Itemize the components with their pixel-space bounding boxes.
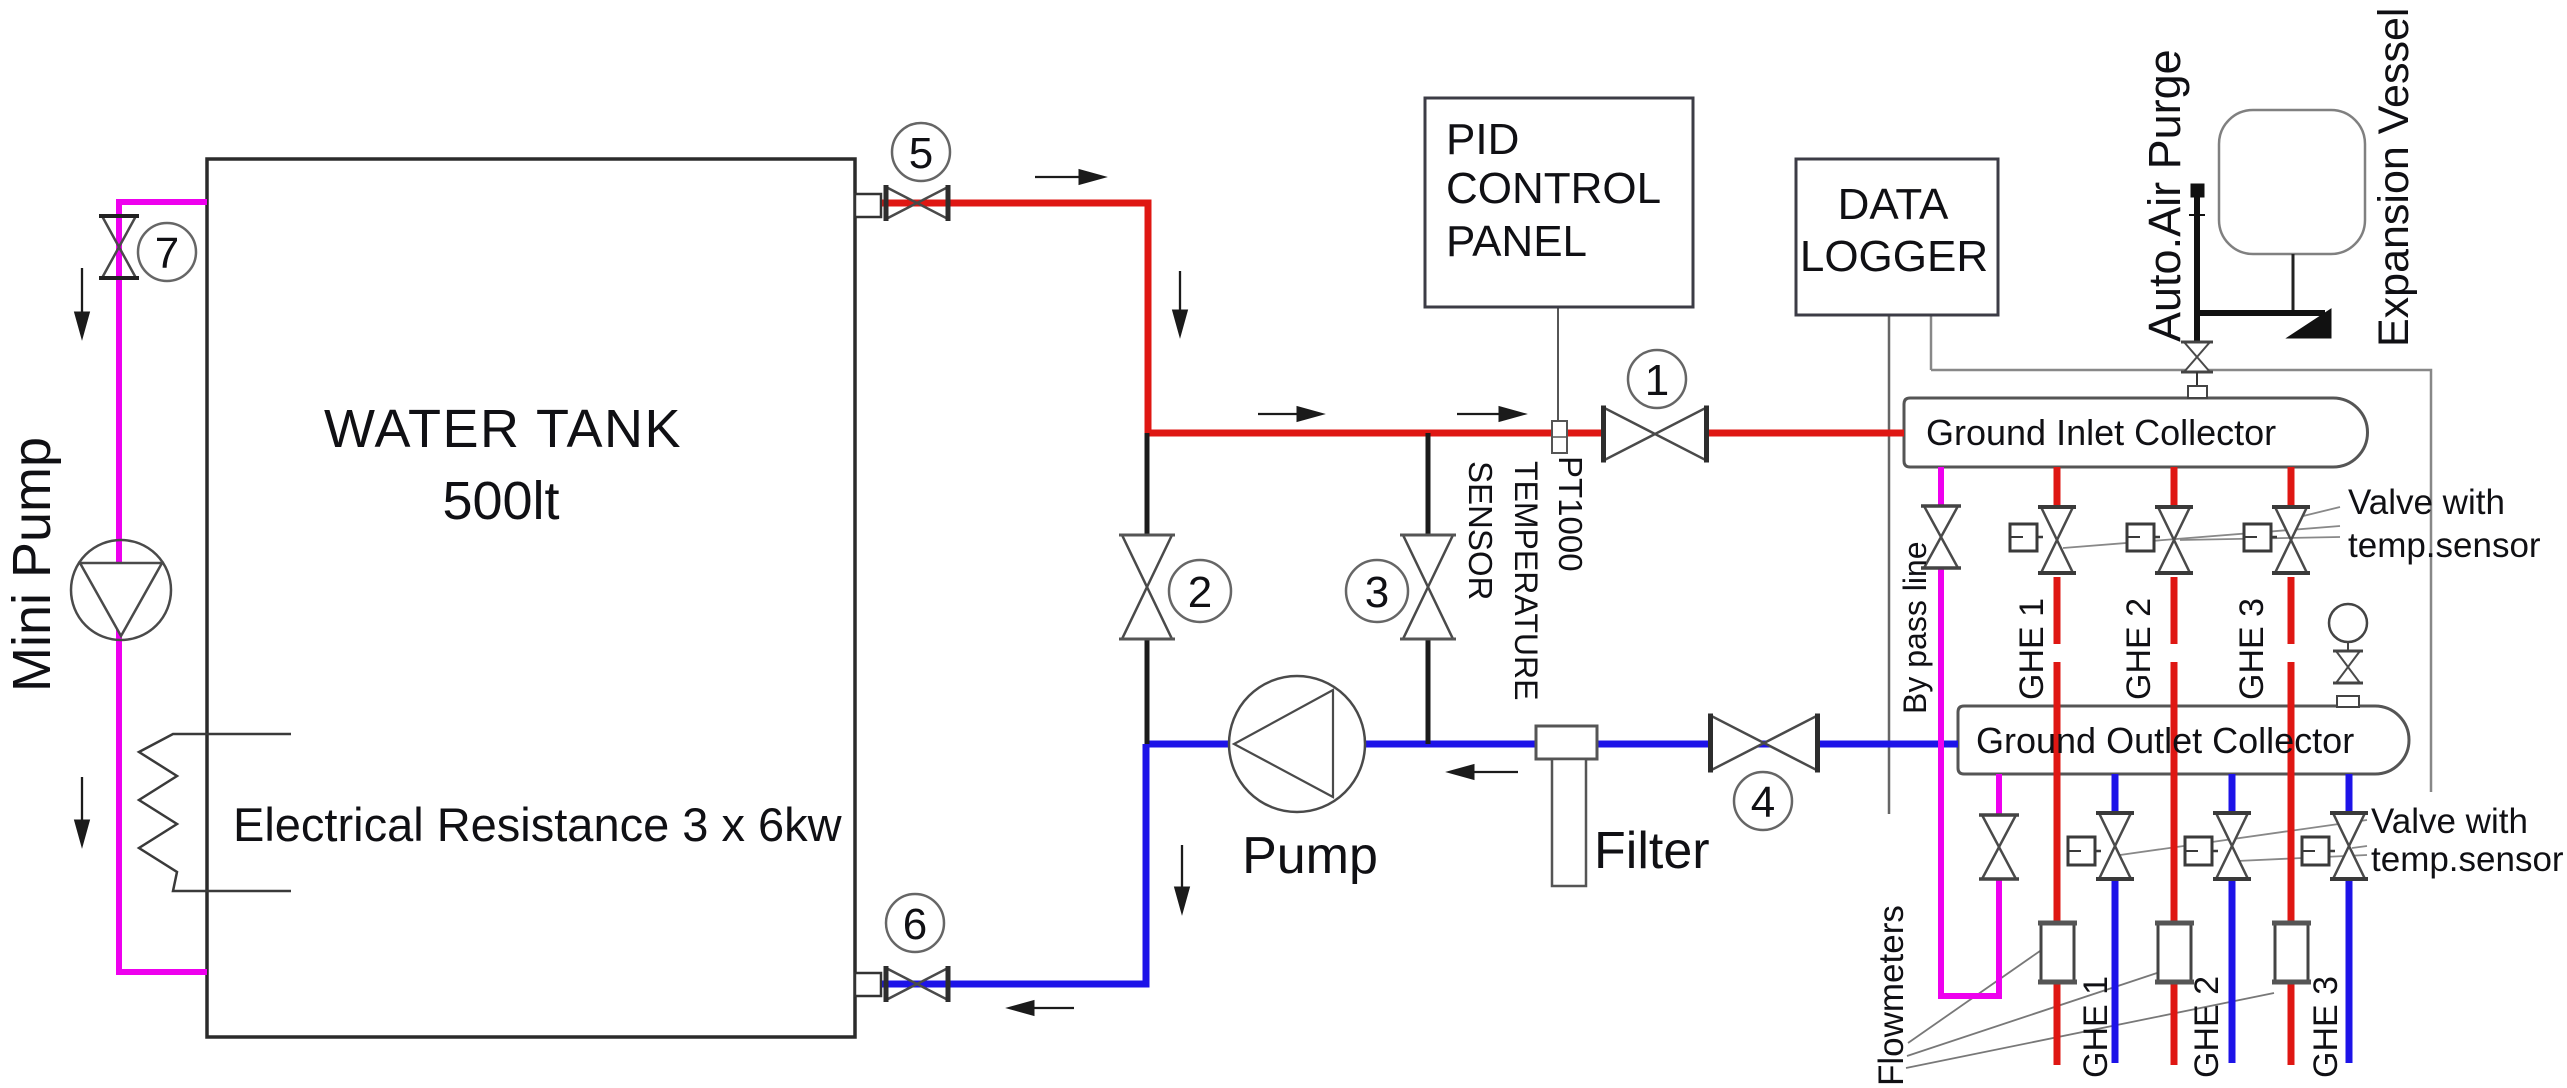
svg-text:TEMPERATURE: TEMPERATURE bbox=[1508, 461, 1544, 700]
svg-text:GHE 1: GHE 1 bbox=[2013, 598, 2051, 700]
svg-text:DATA: DATA bbox=[1838, 180, 1949, 229]
svg-text:Valve with: Valve with bbox=[2348, 483, 2505, 522]
svg-text:500lt: 500lt bbox=[442, 471, 559, 531]
svg-text:5: 5 bbox=[909, 129, 933, 178]
svg-text:2: 2 bbox=[1188, 568, 1212, 617]
svg-text:Pump: Pump bbox=[1242, 827, 1378, 885]
svg-text:Flowmeters: Flowmeters bbox=[1872, 905, 1911, 1086]
svg-text:GHE 1: GHE 1 bbox=[2077, 976, 2115, 1078]
svg-text:GHE 3: GHE 3 bbox=[2233, 598, 2271, 700]
svg-text:4: 4 bbox=[1751, 778, 1775, 827]
svg-text:WATER TANK: WATER TANK bbox=[324, 399, 682, 459]
svg-text:Filter: Filter bbox=[1594, 822, 1710, 880]
svg-text:Ground Outlet Collector: Ground Outlet Collector bbox=[1976, 720, 2354, 761]
svg-text:GHE 2: GHE 2 bbox=[2120, 598, 2158, 700]
svg-text:PANEL: PANEL bbox=[1446, 217, 1587, 266]
svg-text:CONTROL: CONTROL bbox=[1446, 164, 1661, 213]
svg-text:By pass line: By pass line bbox=[1897, 541, 1933, 714]
svg-text:6: 6 bbox=[903, 900, 927, 949]
svg-text:Auto.Air Purge: Auto.Air Purge bbox=[2139, 49, 2190, 342]
svg-text:GHE 2: GHE 2 bbox=[2188, 976, 2226, 1078]
svg-text:temp.sensor: temp.sensor bbox=[2348, 526, 2541, 565]
svg-text:SENSOR: SENSOR bbox=[1462, 461, 1499, 600]
svg-text:temp.sensor: temp.sensor bbox=[2371, 840, 2564, 879]
svg-text:GHE 3: GHE 3 bbox=[2307, 976, 2345, 1078]
svg-text:PID: PID bbox=[1446, 115, 1519, 164]
svg-text:LOGGER: LOGGER bbox=[1800, 232, 1988, 281]
svg-text:Mini Pump: Mini Pump bbox=[2, 437, 62, 692]
svg-text:Expansion Vessel: Expansion Vessel bbox=[2370, 8, 2418, 347]
svg-text:7: 7 bbox=[155, 229, 179, 278]
svg-text:1: 1 bbox=[1645, 356, 1669, 405]
svg-text:3: 3 bbox=[1365, 568, 1389, 617]
svg-text:Valve with: Valve with bbox=[2371, 802, 2528, 841]
svg-text:Ground Inlet Collector: Ground Inlet Collector bbox=[1926, 412, 2276, 453]
svg-text:PT1000: PT1000 bbox=[1552, 456, 1589, 572]
svg-text:Electrical Resistance 3 x 6kw: Electrical Resistance 3 x 6kw bbox=[233, 798, 843, 851]
